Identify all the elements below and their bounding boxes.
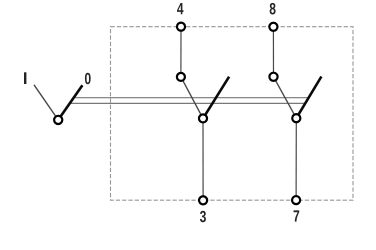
node 0 label (85, 73, 91, 85)
node I label (24, 72, 26, 84)
left actuator lever (58, 85, 82, 120)
wire from node I to left pivot (34, 85, 58, 120)
terminal 8 (269, 23, 277, 31)
pivot contact pole 2 (292, 114, 300, 122)
terminal 3 label (200, 211, 206, 223)
mechanical linkage bar (double line) (70, 98, 309, 104)
fixed contact pole 2 (269, 73, 277, 81)
switch lever pole 1 (203, 77, 229, 119)
terminal 4 label (177, 3, 183, 14)
wire pivot to terminal 7 (295, 118, 297, 200)
wire pivot to terminal 3 (202, 118, 204, 200)
switch lever pole 2 (296, 77, 321, 119)
pivot contact pole 1 (199, 114, 207, 122)
left pivot contact (54, 116, 62, 124)
wire fixed contact to pivot (pole 1) (181, 77, 203, 119)
terminal 7 label (294, 210, 300, 221)
terminal 8 label (270, 3, 276, 15)
wire terminal 4 to fixed contact (pole 1) (180, 27, 182, 77)
dashed enclosure box (111, 27, 354, 201)
wire fixed contact to pivot (pole 2) (274, 77, 297, 118)
terminal 7 (292, 196, 300, 204)
fixed contact pole 1 (177, 73, 185, 81)
terminal 3 (199, 196, 207, 204)
wire terminal 8 to fixed contact (pole 2) (272, 27, 274, 77)
terminal 4 (177, 23, 185, 31)
